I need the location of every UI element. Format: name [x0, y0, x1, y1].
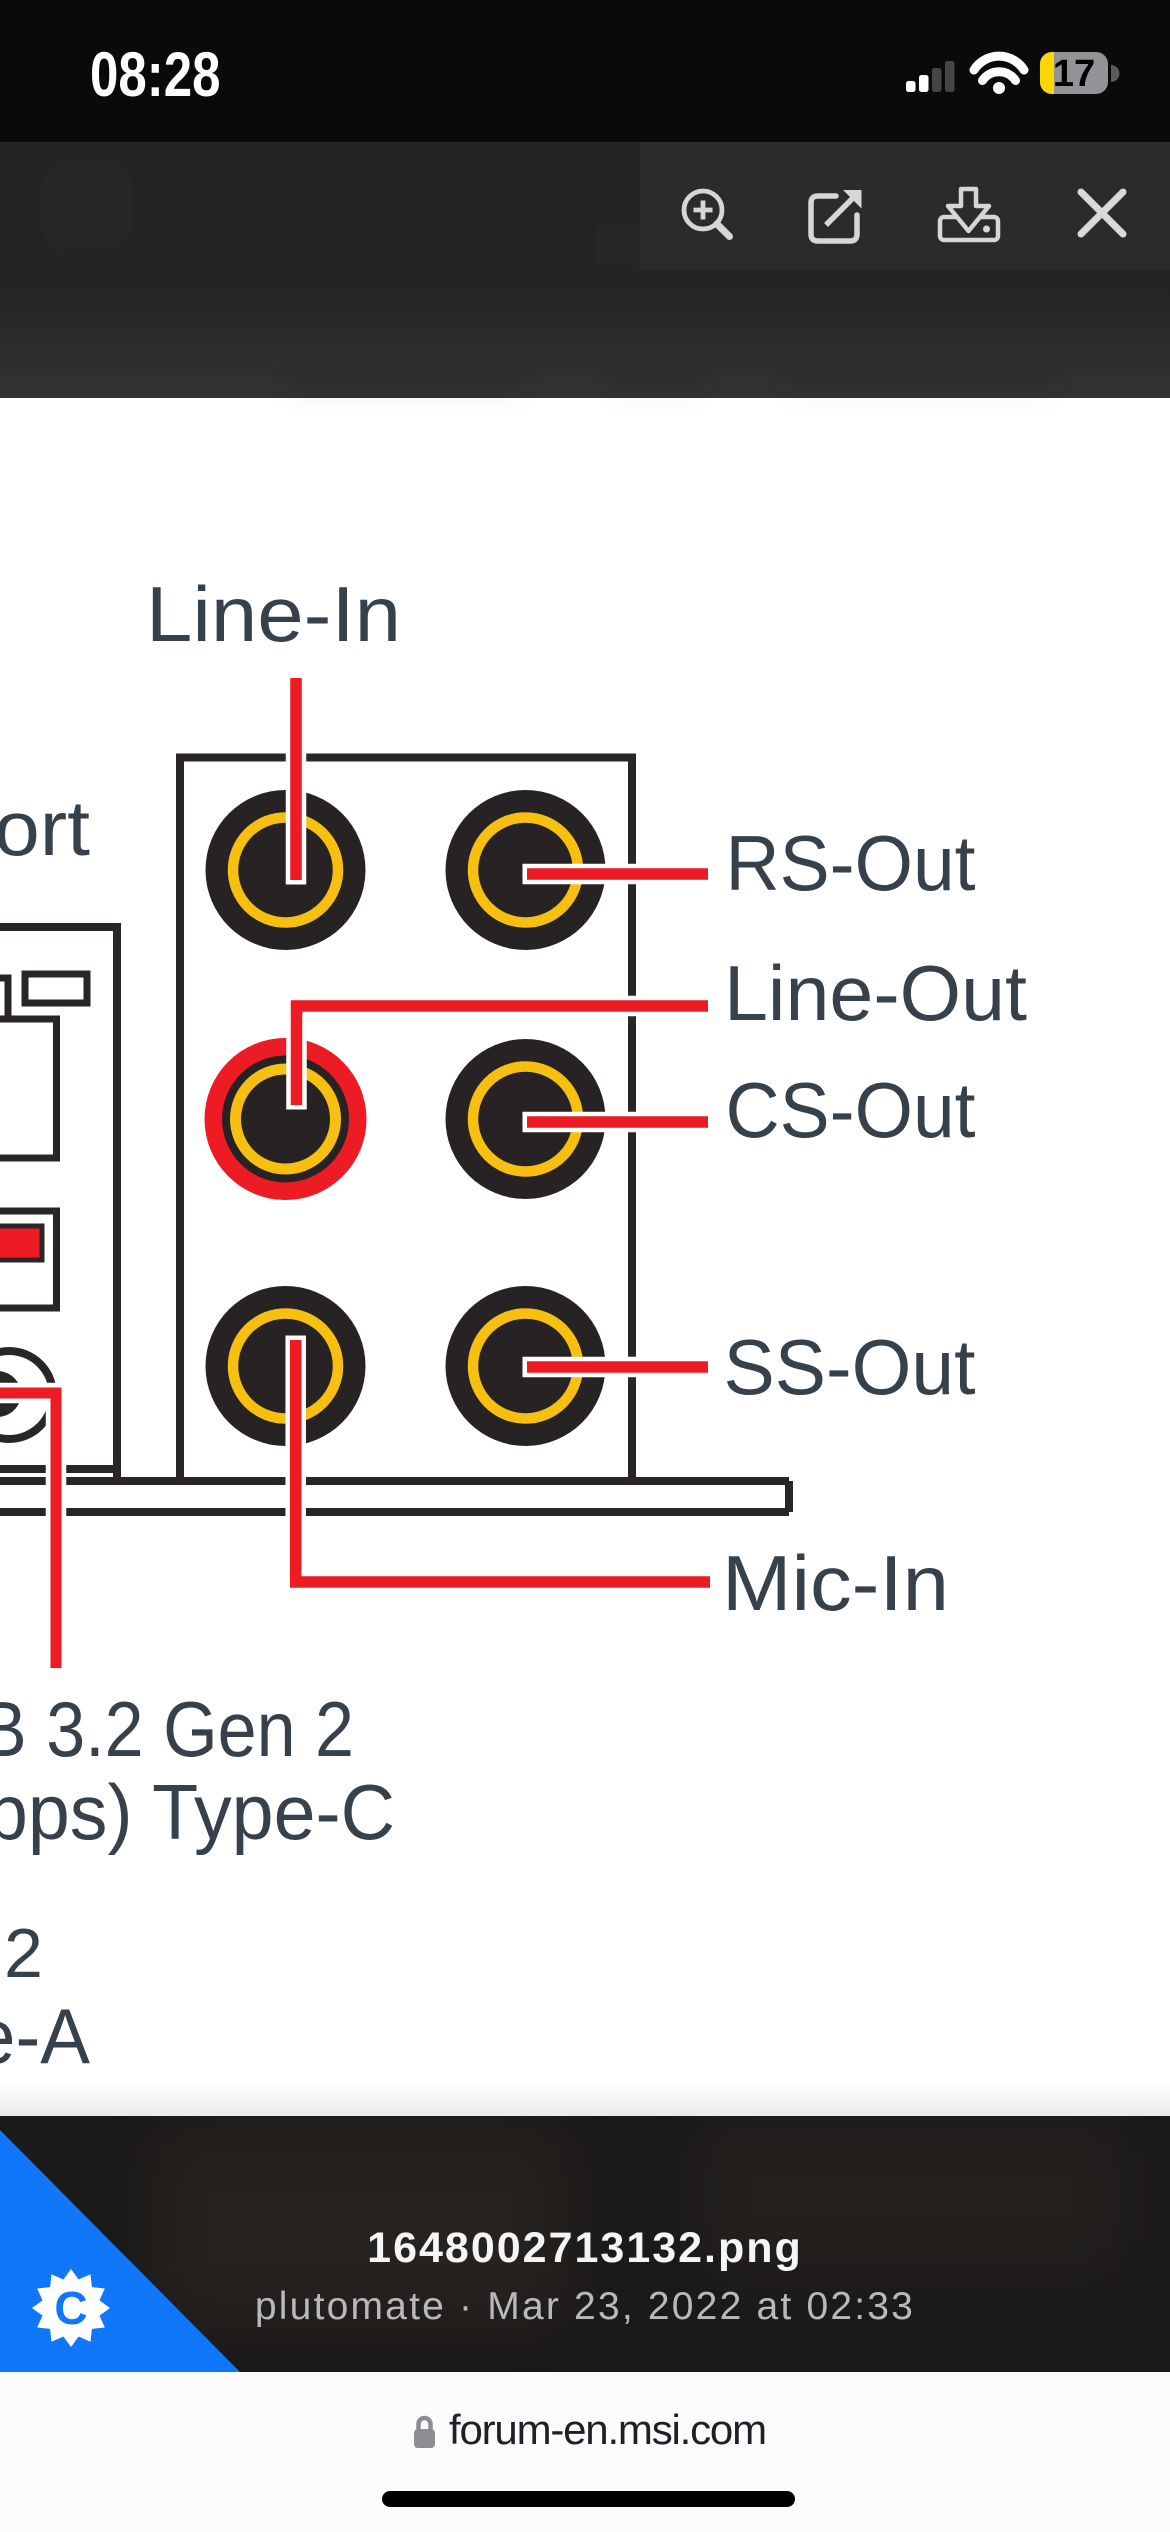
jack SS-Out (row3 right) — [446, 1286, 606, 1446]
connector cavity B — [0, 1211, 57, 1308]
red lead Mic-In — [296, 1340, 710, 1582]
connector circle symbol — [0, 1351, 53, 1439]
cell signal bars — [906, 61, 955, 92]
svg-text:Line-In: Line-In — [146, 570, 401, 658]
jack Mic-In (row3 left) — [206, 1286, 366, 1446]
red lead CS-Out — [527, 1116, 708, 1128]
svg-text:B 3.2 Gen 2: B 3.2 Gen 2 — [0, 1685, 354, 1773]
white casings under red leads — [0, 678, 710, 1668]
red lead Line-In — [290, 678, 302, 880]
red lead RS-Out — [527, 868, 708, 880]
svg-text:2: 2 — [4, 1914, 43, 1992]
jack CS-Out (row2 right) — [446, 1039, 606, 1199]
open-in-new icon — [811, 190, 862, 241]
lock icon — [410, 2408, 450, 2458]
wifi icon — [974, 56, 1024, 94]
dim page remnants in band — [42, 160, 132, 250]
bracket bar — [0, 1481, 789, 1512]
red indicator rect — [0, 1226, 42, 1260]
toolbar icons — [0, 0, 1170, 300]
browser dark band — [0, 142, 1170, 398]
left connector housing — [0, 927, 117, 1477]
red lead Line-Out — [297, 1006, 709, 1105]
red lead SS-Out — [527, 1361, 708, 1373]
jack Line-In (row1 left) — [206, 790, 366, 950]
battery — [1040, 52, 1119, 95]
badge starburst — [32, 2269, 110, 2347]
close icon — [1081, 192, 1123, 234]
byline text — [0, 2285, 1170, 2329]
red lead USB Type-C — [0, 1393, 56, 1668]
lightbox toolbar background — [640, 142, 1170, 270]
svg-text:Mic-In: Mic-In — [722, 1539, 949, 1627]
domain text — [449, 2406, 766, 2454]
svg-text:SS-Out: SS-Out — [724, 1323, 976, 1411]
svg-text:Line-Out: Line-Out — [724, 949, 1027, 1037]
grey gradient above bottom overlay — [0, 2080, 1170, 2116]
svg-text:e-A: e-A — [0, 1992, 90, 2080]
status bar right icons — [0, 0, 1170, 142]
bottom browser bar — [0, 2372, 1170, 2532]
home indicator — [382, 2491, 795, 2507]
blue corner triangle — [0, 2116, 300, 2372]
svg-text:CS-Out: CS-Out — [726, 1066, 976, 1154]
connector step — [0, 978, 8, 1019]
zoom-in icon — [684, 191, 730, 237]
download icon — [940, 189, 998, 240]
svg-text:RS-Out: RS-Out — [726, 819, 976, 907]
audio jack panel rect — [180, 758, 632, 1482]
jack Line-Out (row2 left, red ring) — [205, 1038, 367, 1200]
svg-text:bps) Type-C: bps) Type-C — [0, 1768, 395, 1856]
filename text — [0, 2224, 1170, 2273]
jack RS-Out (row1 right) — [446, 790, 606, 950]
connector tab rect — [25, 974, 87, 1003]
connector cavity A — [0, 1019, 57, 1158]
bottom overlay dark bar — [0, 2116, 1170, 2372]
status bar — [0, 0, 1170, 142]
status bar time — [90, 39, 221, 111]
svg-text:ort: ort — [0, 784, 90, 872]
